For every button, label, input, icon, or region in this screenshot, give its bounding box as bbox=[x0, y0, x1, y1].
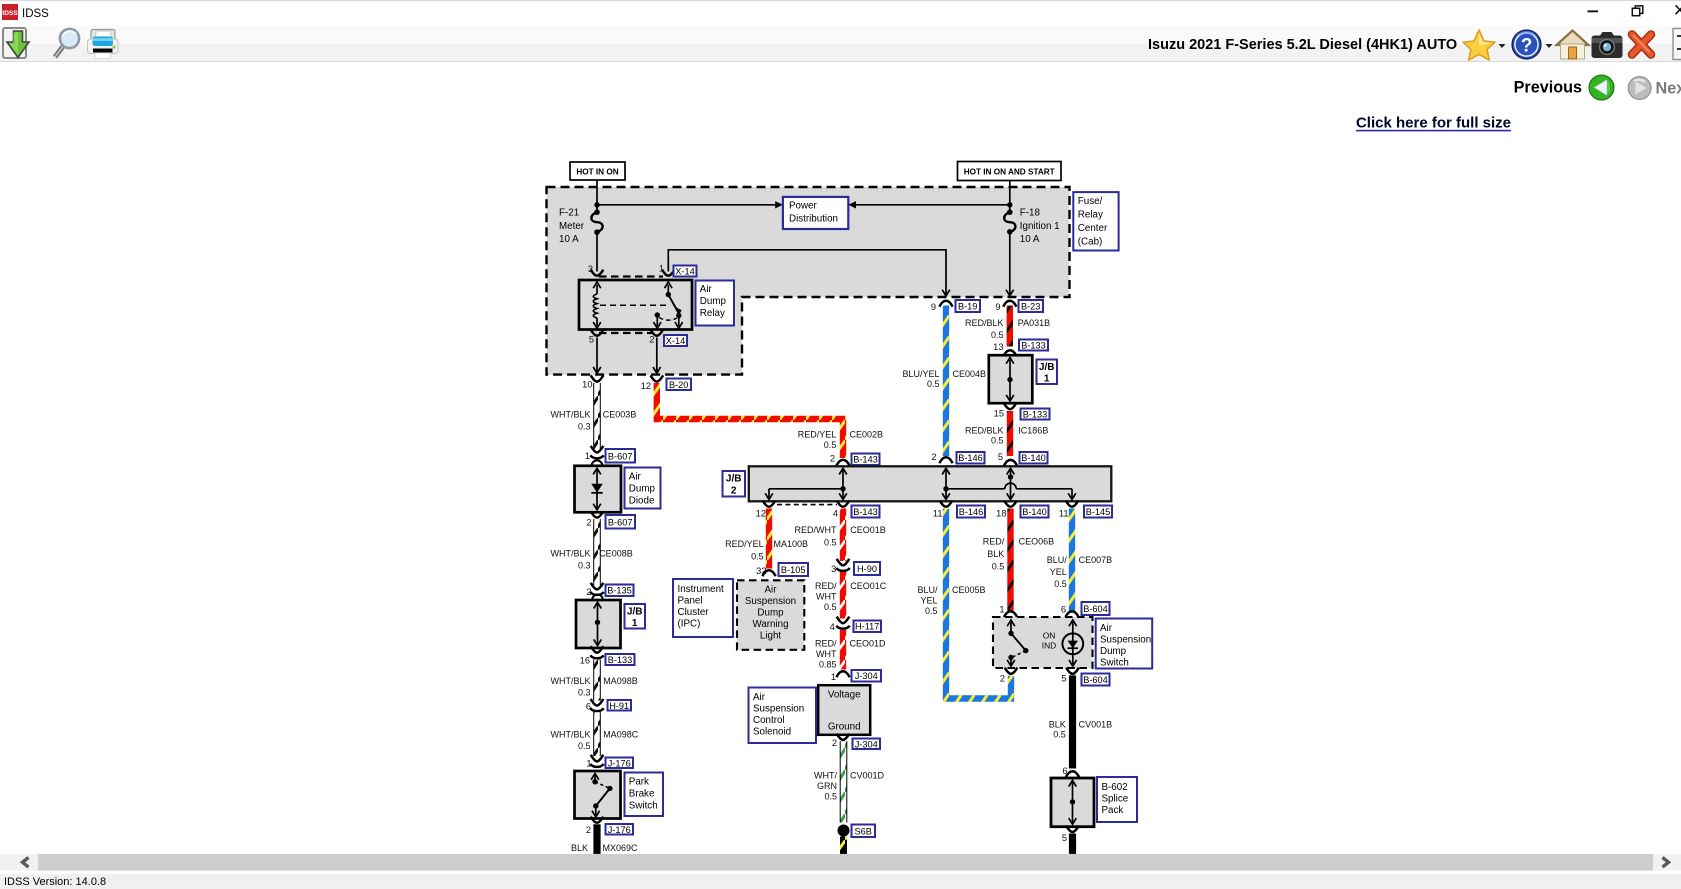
junction block J/B 2 bar bbox=[749, 466, 1112, 501]
relay coil (left leg) bbox=[593, 282, 601, 328]
svg-text:B-19: B-19 bbox=[958, 301, 977, 311]
pin 2 connector B-607 bbox=[591, 511, 604, 517]
svg-text:B-140: B-140 bbox=[1022, 507, 1047, 517]
horizontal scrollbar bbox=[0, 854, 1681, 871]
svg-text:5: 5 bbox=[589, 334, 594, 344]
node: F-18 branch junction bbox=[1007, 202, 1012, 207]
close button (clipped) bbox=[1676, 5, 1681, 14]
restore button bbox=[1632, 6, 1643, 16]
connector B-143 dashed plane below J/B 2 bbox=[777, 504, 837, 506]
svg-text:0.5: 0.5 bbox=[824, 792, 837, 802]
svg-text:Relay: Relay bbox=[700, 308, 725, 319]
label box B-602 Splice Pack bbox=[1097, 777, 1137, 822]
pin 9 connector B-23 bbox=[1003, 301, 1016, 307]
svg-text:CEO06B: CEO06B bbox=[1019, 537, 1055, 547]
svg-text:B-604: B-604 bbox=[1083, 604, 1108, 614]
svg-text:MA098B: MA098B bbox=[603, 676, 638, 686]
svg-text:Air: Air bbox=[629, 472, 642, 483]
svg-text:1: 1 bbox=[659, 264, 664, 274]
pin 1 connector B-607 bbox=[591, 446, 604, 453]
svg-text:3: 3 bbox=[588, 264, 593, 274]
svg-text:Switch: Switch bbox=[1100, 658, 1129, 669]
svg-text:9: 9 bbox=[995, 302, 1000, 312]
svg-text:BLK: BLK bbox=[1049, 720, 1066, 730]
svg-text:1: 1 bbox=[999, 605, 1004, 615]
wire relay pin 5 to bottom edge bbox=[596, 338, 598, 372]
svg-text:0.5: 0.5 bbox=[1054, 579, 1067, 589]
wire RED/YEL MA100B bbox=[766, 509, 772, 569]
svg-text:CEO01B: CEO01B bbox=[850, 525, 886, 535]
svg-text:J-176: J-176 bbox=[608, 758, 631, 768]
box Voltage Ground bbox=[818, 685, 870, 735]
svg-text:Air: Air bbox=[1100, 623, 1113, 634]
svg-text:CE005B: CE005B bbox=[952, 585, 986, 595]
svg-text:B-145: B-145 bbox=[1086, 507, 1111, 517]
pin 2 X-14 bbox=[651, 330, 664, 336]
wire from HOT IN ON to fuse F-21 bbox=[596, 180, 598, 212]
svg-text:Dump: Dump bbox=[757, 607, 784, 618]
svg-text:WHT/BLK: WHT/BLK bbox=[550, 409, 590, 419]
svg-text:0.5: 0.5 bbox=[925, 606, 938, 616]
red X icon bbox=[1632, 35, 1651, 55]
switch box Park Brake Switch bbox=[575, 771, 621, 819]
wire F-21 fuse down to relay pin 3 bbox=[596, 232, 598, 271]
fuse F-18 Ignition 1 10 A bbox=[1004, 208, 1059, 246]
svg-text:2: 2 bbox=[1000, 673, 1005, 683]
pin 6 connector H-91 bbox=[591, 699, 604, 706]
svg-text:5: 5 bbox=[998, 452, 1003, 462]
pin 16 connector B-133 bbox=[591, 646, 604, 653]
svg-text:B-604: B-604 bbox=[1083, 675, 1108, 685]
pin 5 connector below B-602 bbox=[1066, 826, 1079, 832]
svg-text:CV001B: CV001B bbox=[1079, 720, 1113, 730]
connector label X-14 (bottom) bbox=[664, 335, 687, 346]
label box J/B 1 (right) bbox=[1037, 360, 1058, 385]
J/B 2 exit pin 18 B-140 bbox=[1004, 501, 1017, 507]
camera icon bbox=[1592, 32, 1623, 58]
label box Air Dump Relay bbox=[696, 281, 735, 326]
label box Air Dump Diode bbox=[625, 468, 661, 509]
svg-text:Fuse/: Fuse/ bbox=[1078, 196, 1103, 207]
svg-text:Air: Air bbox=[765, 584, 778, 595]
svg-text:Warning: Warning bbox=[752, 619, 788, 630]
svg-text:CE007B: CE007B bbox=[1079, 555, 1113, 565]
pin 2 connector B-135 bbox=[591, 583, 604, 590]
svg-text:B-143: B-143 bbox=[853, 507, 878, 517]
svg-text:X-14: X-14 bbox=[675, 266, 694, 276]
pin 9 connector B-19 bbox=[939, 301, 952, 307]
svg-text:0.5: 0.5 bbox=[578, 741, 591, 751]
splice S6B bbox=[838, 825, 850, 837]
svg-text:BLK: BLK bbox=[987, 549, 1004, 559]
toolbar icon: printer bbox=[88, 30, 119, 59]
svg-text:2: 2 bbox=[832, 738, 837, 748]
diode symbol bbox=[591, 484, 602, 493]
J/B 2 exit pin 4 B-143 bbox=[837, 501, 850, 507]
junction block J/B 1 (right) bbox=[989, 355, 1033, 403]
svg-text:12: 12 bbox=[641, 381, 651, 391]
label box Fuse/Relay Center (Cab) bbox=[1073, 192, 1118, 250]
pin 2 connector below dump switch bbox=[1005, 668, 1018, 674]
svg-text:PA031B: PA031B bbox=[1018, 318, 1050, 328]
svg-text:BLK: BLK bbox=[571, 843, 588, 853]
svg-text:Isuzu 2021 F-Series 5.2L Diese: Isuzu 2021 F-Series 5.2L Diesel (4HK1) A… bbox=[1148, 37, 1457, 53]
svg-text:WHT/BLK: WHT/BLK bbox=[550, 730, 590, 740]
help icon bbox=[1512, 30, 1541, 59]
pin 1 X-14 bbox=[662, 270, 675, 276]
svg-text:0.5: 0.5 bbox=[991, 330, 1004, 340]
svg-text:MA100B: MA100B bbox=[774, 539, 809, 549]
svg-text:J-176: J-176 bbox=[608, 825, 631, 835]
dropdown caret 2 bbox=[1546, 44, 1553, 48]
J/B 2 internal: B-143 leg bbox=[765, 468, 847, 499]
label box Air Suspension Control Solenoid bbox=[749, 688, 817, 744]
svg-text:BLU/: BLU/ bbox=[1047, 555, 1068, 565]
svg-text:BLU/: BLU/ bbox=[917, 585, 938, 595]
svg-text:HOT IN ON AND START: HOT IN ON AND START bbox=[964, 167, 1055, 176]
indicator lamp bbox=[1069, 620, 1077, 626]
svg-text:J-304: J-304 bbox=[855, 739, 878, 749]
pin 2 connector B-146 into J/B 2 bbox=[939, 457, 952, 463]
svg-text:RED/: RED/ bbox=[815, 638, 837, 648]
svg-text:Splice: Splice bbox=[1102, 794, 1129, 805]
splice pack B-602 bbox=[1051, 778, 1094, 827]
svg-text:IC186B: IC186B bbox=[1018, 426, 1048, 436]
svg-text:Power: Power bbox=[789, 201, 818, 212]
svg-text:BLU/YEL: BLU/YEL bbox=[902, 369, 939, 379]
svg-text:32: 32 bbox=[756, 566, 766, 576]
svg-text:15: 15 bbox=[994, 409, 1004, 419]
svg-text:(IPC): (IPC) bbox=[678, 619, 701, 630]
pin 5 connector B-140 into J/B 2 bbox=[1004, 460, 1017, 466]
svg-text:10 A: 10 A bbox=[559, 234, 579, 245]
svg-text:RED/BLK: RED/BLK bbox=[965, 318, 1004, 328]
pin 2 connector J-304 bbox=[837, 734, 850, 740]
svg-text:Relay: Relay bbox=[1078, 210, 1103, 221]
wire WHT/BLK MA098C bbox=[593, 712, 601, 756]
box Power Distribution bbox=[783, 197, 848, 229]
svg-text:Panel: Panel bbox=[678, 596, 703, 607]
wire WHT/BLK CE008B bbox=[593, 519, 601, 585]
star icon bbox=[1463, 30, 1495, 60]
svg-text:5: 5 bbox=[1062, 833, 1067, 843]
toolbar icon: save/download bbox=[3, 28, 29, 58]
svg-text:0.5: 0.5 bbox=[824, 440, 837, 450]
svg-text:ON: ON bbox=[1043, 631, 1056, 641]
header HOT IN ON AND START bbox=[958, 162, 1062, 181]
svg-text:Light: Light bbox=[760, 630, 782, 641]
wire WHT/GRN CV001D bbox=[840, 741, 848, 822]
wire BLU/YEL CE004B bbox=[943, 306, 949, 457]
svg-text:Air: Air bbox=[700, 284, 713, 295]
svg-text:0.5: 0.5 bbox=[991, 435, 1004, 445]
svg-text:16: 16 bbox=[580, 656, 590, 666]
svg-text:B-146: B-146 bbox=[958, 453, 983, 463]
box Air Dump Diode bbox=[575, 460, 622, 512]
svg-text:B-133: B-133 bbox=[1023, 410, 1048, 420]
fuse F-21 Meter 10 A bbox=[559, 208, 603, 246]
switch box Air Suspension Dump Switch bbox=[993, 617, 1093, 668]
svg-text:WHT: WHT bbox=[816, 592, 837, 602]
svg-text:11: 11 bbox=[1059, 508, 1069, 518]
svg-text:?: ? bbox=[1521, 36, 1533, 57]
pin 5 X-14 bbox=[591, 330, 604, 336]
svg-text:(Cab): (Cab) bbox=[1078, 237, 1103, 248]
minimize button bbox=[1588, 10, 1599, 12]
wire RED/WHT CEO01B bbox=[840, 509, 846, 562]
svg-text:Air: Air bbox=[753, 692, 766, 703]
wire F-18 fuse down to connector B-23 bbox=[1009, 232, 1011, 294]
svg-text:B-143: B-143 bbox=[853, 455, 878, 465]
pin 1 connector J-176 bbox=[591, 755, 604, 762]
svg-text:Next: Next bbox=[1656, 80, 1681, 98]
svg-text:Center: Center bbox=[1078, 223, 1108, 234]
svg-text:2: 2 bbox=[731, 485, 737, 496]
svg-text:IDSS: IDSS bbox=[22, 8, 49, 20]
toolbar icon: magnifier bbox=[55, 29, 79, 57]
label box J/B 2 bbox=[723, 471, 746, 497]
svg-text:Previous: Previous bbox=[1514, 78, 1582, 96]
svg-text:Cluster: Cluster bbox=[678, 607, 710, 618]
svg-text:B-146: B-146 bbox=[959, 507, 984, 517]
svg-text:4: 4 bbox=[833, 508, 838, 518]
wire BLK below B-602 bbox=[1069, 834, 1076, 854]
svg-text:1: 1 bbox=[1044, 373, 1050, 384]
junction block J/B 1 (left) bbox=[576, 595, 621, 648]
svg-text:Dump: Dump bbox=[1100, 646, 1127, 657]
svg-text:H-90: H-90 bbox=[857, 564, 877, 574]
svg-text:B-133: B-133 bbox=[1021, 341, 1046, 351]
svg-text:CEO01D: CEO01D bbox=[850, 638, 887, 648]
wire WHT/BLK CE003B bbox=[593, 383, 601, 449]
svg-text:1: 1 bbox=[586, 759, 591, 769]
svg-text:Dump: Dump bbox=[700, 296, 727, 307]
svg-text:B-135: B-135 bbox=[607, 586, 632, 596]
wire BLU/YEL CE007B bbox=[1069, 509, 1075, 611]
wire BLK MX069C bbox=[593, 824, 600, 854]
svg-text:1: 1 bbox=[831, 672, 836, 682]
svg-text:GRN: GRN bbox=[817, 781, 837, 791]
J/B 2 exit pin 12 bbox=[763, 501, 776, 507]
wire to Power Distribution (left) bbox=[597, 204, 776, 206]
svg-text:Brake: Brake bbox=[629, 789, 655, 800]
svg-text:3: 3 bbox=[831, 564, 836, 574]
svg-text:RED/YEL: RED/YEL bbox=[725, 539, 764, 549]
svg-text:RED/YEL: RED/YEL bbox=[798, 430, 837, 440]
svg-text:YEL: YEL bbox=[1050, 567, 1067, 577]
svg-text:Distribution: Distribution bbox=[789, 214, 838, 225]
app icon IDSS bbox=[2, 4, 18, 20]
J/B 2 exit pin 11 B-146 bbox=[940, 501, 953, 507]
svg-text:Ground: Ground bbox=[828, 722, 861, 733]
svg-text:Suspension: Suspension bbox=[1100, 635, 1151, 646]
fuse/relay center gray region bbox=[547, 187, 1070, 375]
svg-text:0.5: 0.5 bbox=[992, 562, 1005, 572]
J/B 2 internal: B-146/B-140/B-145 legs bbox=[942, 468, 1076, 499]
svg-text:CE008B: CE008B bbox=[599, 548, 633, 558]
pin 1 connector J-304 bbox=[836, 671, 849, 677]
svg-text:B-23: B-23 bbox=[1021, 301, 1040, 311]
label box J/B 1 (left) bbox=[625, 604, 646, 629]
svg-text:2: 2 bbox=[931, 452, 936, 462]
svg-text:Voltage: Voltage bbox=[828, 690, 861, 701]
pin 6 connector B-604 bbox=[1065, 611, 1078, 617]
svg-text:1: 1 bbox=[585, 451, 590, 461]
svg-text:Suspension: Suspension bbox=[753, 704, 804, 715]
svg-text:CV001D: CV001D bbox=[850, 771, 885, 781]
pin 10 connector CE003B exit bbox=[591, 375, 604, 381]
svg-text:13: 13 bbox=[993, 342, 1003, 352]
relay switch (right leg) bbox=[654, 282, 683, 328]
label box Instrument Panel Cluster (IPC) bbox=[673, 579, 733, 637]
svg-text:IDSS: IDSS bbox=[2, 10, 18, 17]
svg-text:CE004B: CE004B bbox=[953, 369, 987, 379]
pin 6 connector into B-602 bbox=[1066, 771, 1079, 777]
svg-text:J/B: J/B bbox=[627, 606, 643, 617]
svg-text:H-117: H-117 bbox=[855, 622, 879, 632]
J/B 2 exit pin 11 B-145 bbox=[1066, 501, 1079, 507]
svg-text:0.5: 0.5 bbox=[824, 537, 837, 547]
svg-text:5: 5 bbox=[1061, 673, 1066, 683]
wire BLU/YEL CE005B bbox=[946, 509, 1011, 699]
svg-text:10: 10 bbox=[582, 380, 592, 390]
svg-text:F-18: F-18 bbox=[1020, 208, 1041, 219]
svg-text:2: 2 bbox=[649, 334, 654, 344]
wire RED/BLK CEO06B bbox=[1007, 509, 1013, 611]
svg-text:B-140: B-140 bbox=[1021, 453, 1046, 463]
wire WHT/BLK MA098B bbox=[593, 660, 601, 701]
svg-text:Control: Control bbox=[753, 715, 785, 726]
wire RED/WHT CEO01C bbox=[840, 572, 846, 619]
svg-text:J-304: J-304 bbox=[855, 671, 878, 681]
svg-text:RED/: RED/ bbox=[983, 537, 1005, 547]
wire BLK CV001B bbox=[1069, 675, 1076, 768]
toolbar background bbox=[0, 26, 1681, 62]
pin 2 connector B-143 into J/B 2 bbox=[836, 460, 849, 466]
svg-text:WHT/BLK: WHT/BLK bbox=[550, 548, 590, 558]
svg-text:Meter: Meter bbox=[559, 221, 585, 232]
pin 3 X-14 bbox=[591, 270, 604, 276]
svg-text:9: 9 bbox=[931, 302, 936, 312]
svg-text:B-105: B-105 bbox=[781, 565, 806, 575]
svg-text:J/B: J/B bbox=[1039, 362, 1055, 373]
header HOT IN ON bbox=[570, 162, 625, 180]
svg-text:Suspension: Suspension bbox=[745, 596, 796, 607]
svg-text:Switch: Switch bbox=[629, 801, 658, 812]
label box Park Brake Switch bbox=[625, 773, 664, 817]
svg-text:Ignition 1: Ignition 1 bbox=[1020, 221, 1060, 232]
svg-text:YEL: YEL bbox=[920, 595, 937, 605]
svg-text:0.3: 0.3 bbox=[578, 421, 591, 431]
svg-text:WHT/BLK: WHT/BLK bbox=[550, 676, 590, 686]
wire from HOT IN ON AND START to fuse F-18 bbox=[1009, 181, 1011, 213]
svg-text:MX069C: MX069C bbox=[603, 843, 639, 853]
svg-text:10 A: 10 A bbox=[1020, 234, 1040, 245]
svg-text:Dump: Dump bbox=[629, 484, 656, 495]
svg-text:Park: Park bbox=[629, 777, 649, 788]
svg-text:2: 2 bbox=[586, 587, 591, 597]
svg-text:0.5: 0.5 bbox=[824, 602, 837, 612]
svg-text:IND: IND bbox=[1042, 641, 1056, 651]
pin 32 connector B-105 bbox=[762, 570, 775, 576]
clipped control at right edge bbox=[1673, 29, 1681, 60]
svg-text:CEO01C: CEO01C bbox=[850, 581, 887, 591]
wire BLK/YEL below S6B bbox=[840, 837, 847, 854]
dropdown caret bbox=[1499, 44, 1506, 48]
svg-text:WHT/: WHT/ bbox=[814, 771, 837, 781]
svg-text:Pack: Pack bbox=[1102, 805, 1124, 816]
svg-text:Instrument: Instrument bbox=[678, 584, 725, 595]
svg-text:MA098C: MA098C bbox=[603, 730, 639, 740]
svg-text:0.3: 0.3 bbox=[578, 688, 591, 698]
svg-text:Solenoid: Solenoid bbox=[753, 727, 791, 738]
svg-text:Diode: Diode bbox=[629, 496, 655, 507]
connector X-14 dashed plane (bottom) bbox=[599, 332, 653, 334]
wire from relay pin 1 up and over to connector B-19 bbox=[668, 250, 946, 294]
pin 13 connector B-133 bbox=[1003, 350, 1016, 356]
wire RED/BLK PA031B bbox=[1007, 306, 1013, 347]
wire RED/YEL CE002B from B-20 to B-143 bbox=[657, 383, 843, 458]
lamp box Air Suspension Dump Warning Light bbox=[737, 580, 804, 650]
pin 15 connector B-133 bbox=[1004, 403, 1017, 409]
svg-text:2: 2 bbox=[586, 518, 591, 528]
svg-text:2: 2 bbox=[830, 454, 835, 464]
svg-text:12: 12 bbox=[756, 508, 766, 518]
pin 2 connector J-176 bbox=[591, 817, 604, 823]
svg-text:B-602: B-602 bbox=[1102, 782, 1128, 793]
relay box Air Dump Relay bbox=[579, 280, 692, 330]
svg-text:6: 6 bbox=[1062, 766, 1067, 776]
svg-text:RED/: RED/ bbox=[815, 581, 837, 591]
pin 12 connector B-20 exit bbox=[651, 375, 664, 381]
svg-text:1: 1 bbox=[632, 618, 638, 629]
svg-text:0.5: 0.5 bbox=[927, 379, 940, 389]
svg-text:RED/WHT: RED/WHT bbox=[795, 525, 837, 535]
relay linkage (dashed) bbox=[600, 304, 668, 306]
svg-text:0.3: 0.3 bbox=[578, 560, 591, 570]
node: F-21 branch junction bbox=[594, 202, 599, 207]
svg-text:B-607: B-607 bbox=[608, 451, 633, 461]
svg-text:Click here for full size: Click here for full size bbox=[1356, 115, 1511, 132]
wire from F-18 to Power Distribution (right) bbox=[856, 204, 1010, 206]
svg-text:CE002B: CE002B bbox=[850, 430, 884, 440]
svg-text:S6B: S6B bbox=[855, 826, 872, 836]
label box Air Suspension Dump Switch bbox=[1096, 619, 1153, 669]
pin 5 connector B-604 bbox=[1066, 668, 1079, 674]
svg-text:H-91: H-91 bbox=[609, 701, 629, 711]
svg-text:11: 11 bbox=[933, 508, 943, 518]
svg-text:0.85: 0.85 bbox=[819, 659, 837, 669]
svg-text:2: 2 bbox=[586, 825, 591, 835]
svg-text:B-20: B-20 bbox=[669, 380, 688, 390]
status bar bbox=[0, 874, 1681, 889]
svg-text:B-607: B-607 bbox=[608, 517, 633, 527]
svg-text:6: 6 bbox=[1061, 605, 1066, 615]
svg-text:X-14: X-14 bbox=[666, 336, 685, 346]
wire RED/WHT CEO01D bbox=[840, 630, 846, 670]
svg-text:F-21: F-21 bbox=[559, 208, 579, 219]
wire relay pin 2 to bottom edge bbox=[656, 338, 658, 372]
wire RED/BLK IC186B bbox=[1007, 411, 1013, 456]
pin 3 connector H-90 bbox=[837, 559, 850, 566]
svg-text:J/B: J/B bbox=[726, 473, 742, 484]
svg-text:IDSS Version: 14.0.8: IDSS Version: 14.0.8 bbox=[4, 876, 106, 888]
svg-text:RED/BLK: RED/BLK bbox=[965, 426, 1004, 436]
connector X-14 dashed plane (top) bbox=[599, 275, 663, 277]
svg-text:WHT: WHT bbox=[816, 649, 837, 659]
svg-text:4: 4 bbox=[830, 622, 835, 632]
pin 4 connector H-117 bbox=[837, 617, 850, 624]
